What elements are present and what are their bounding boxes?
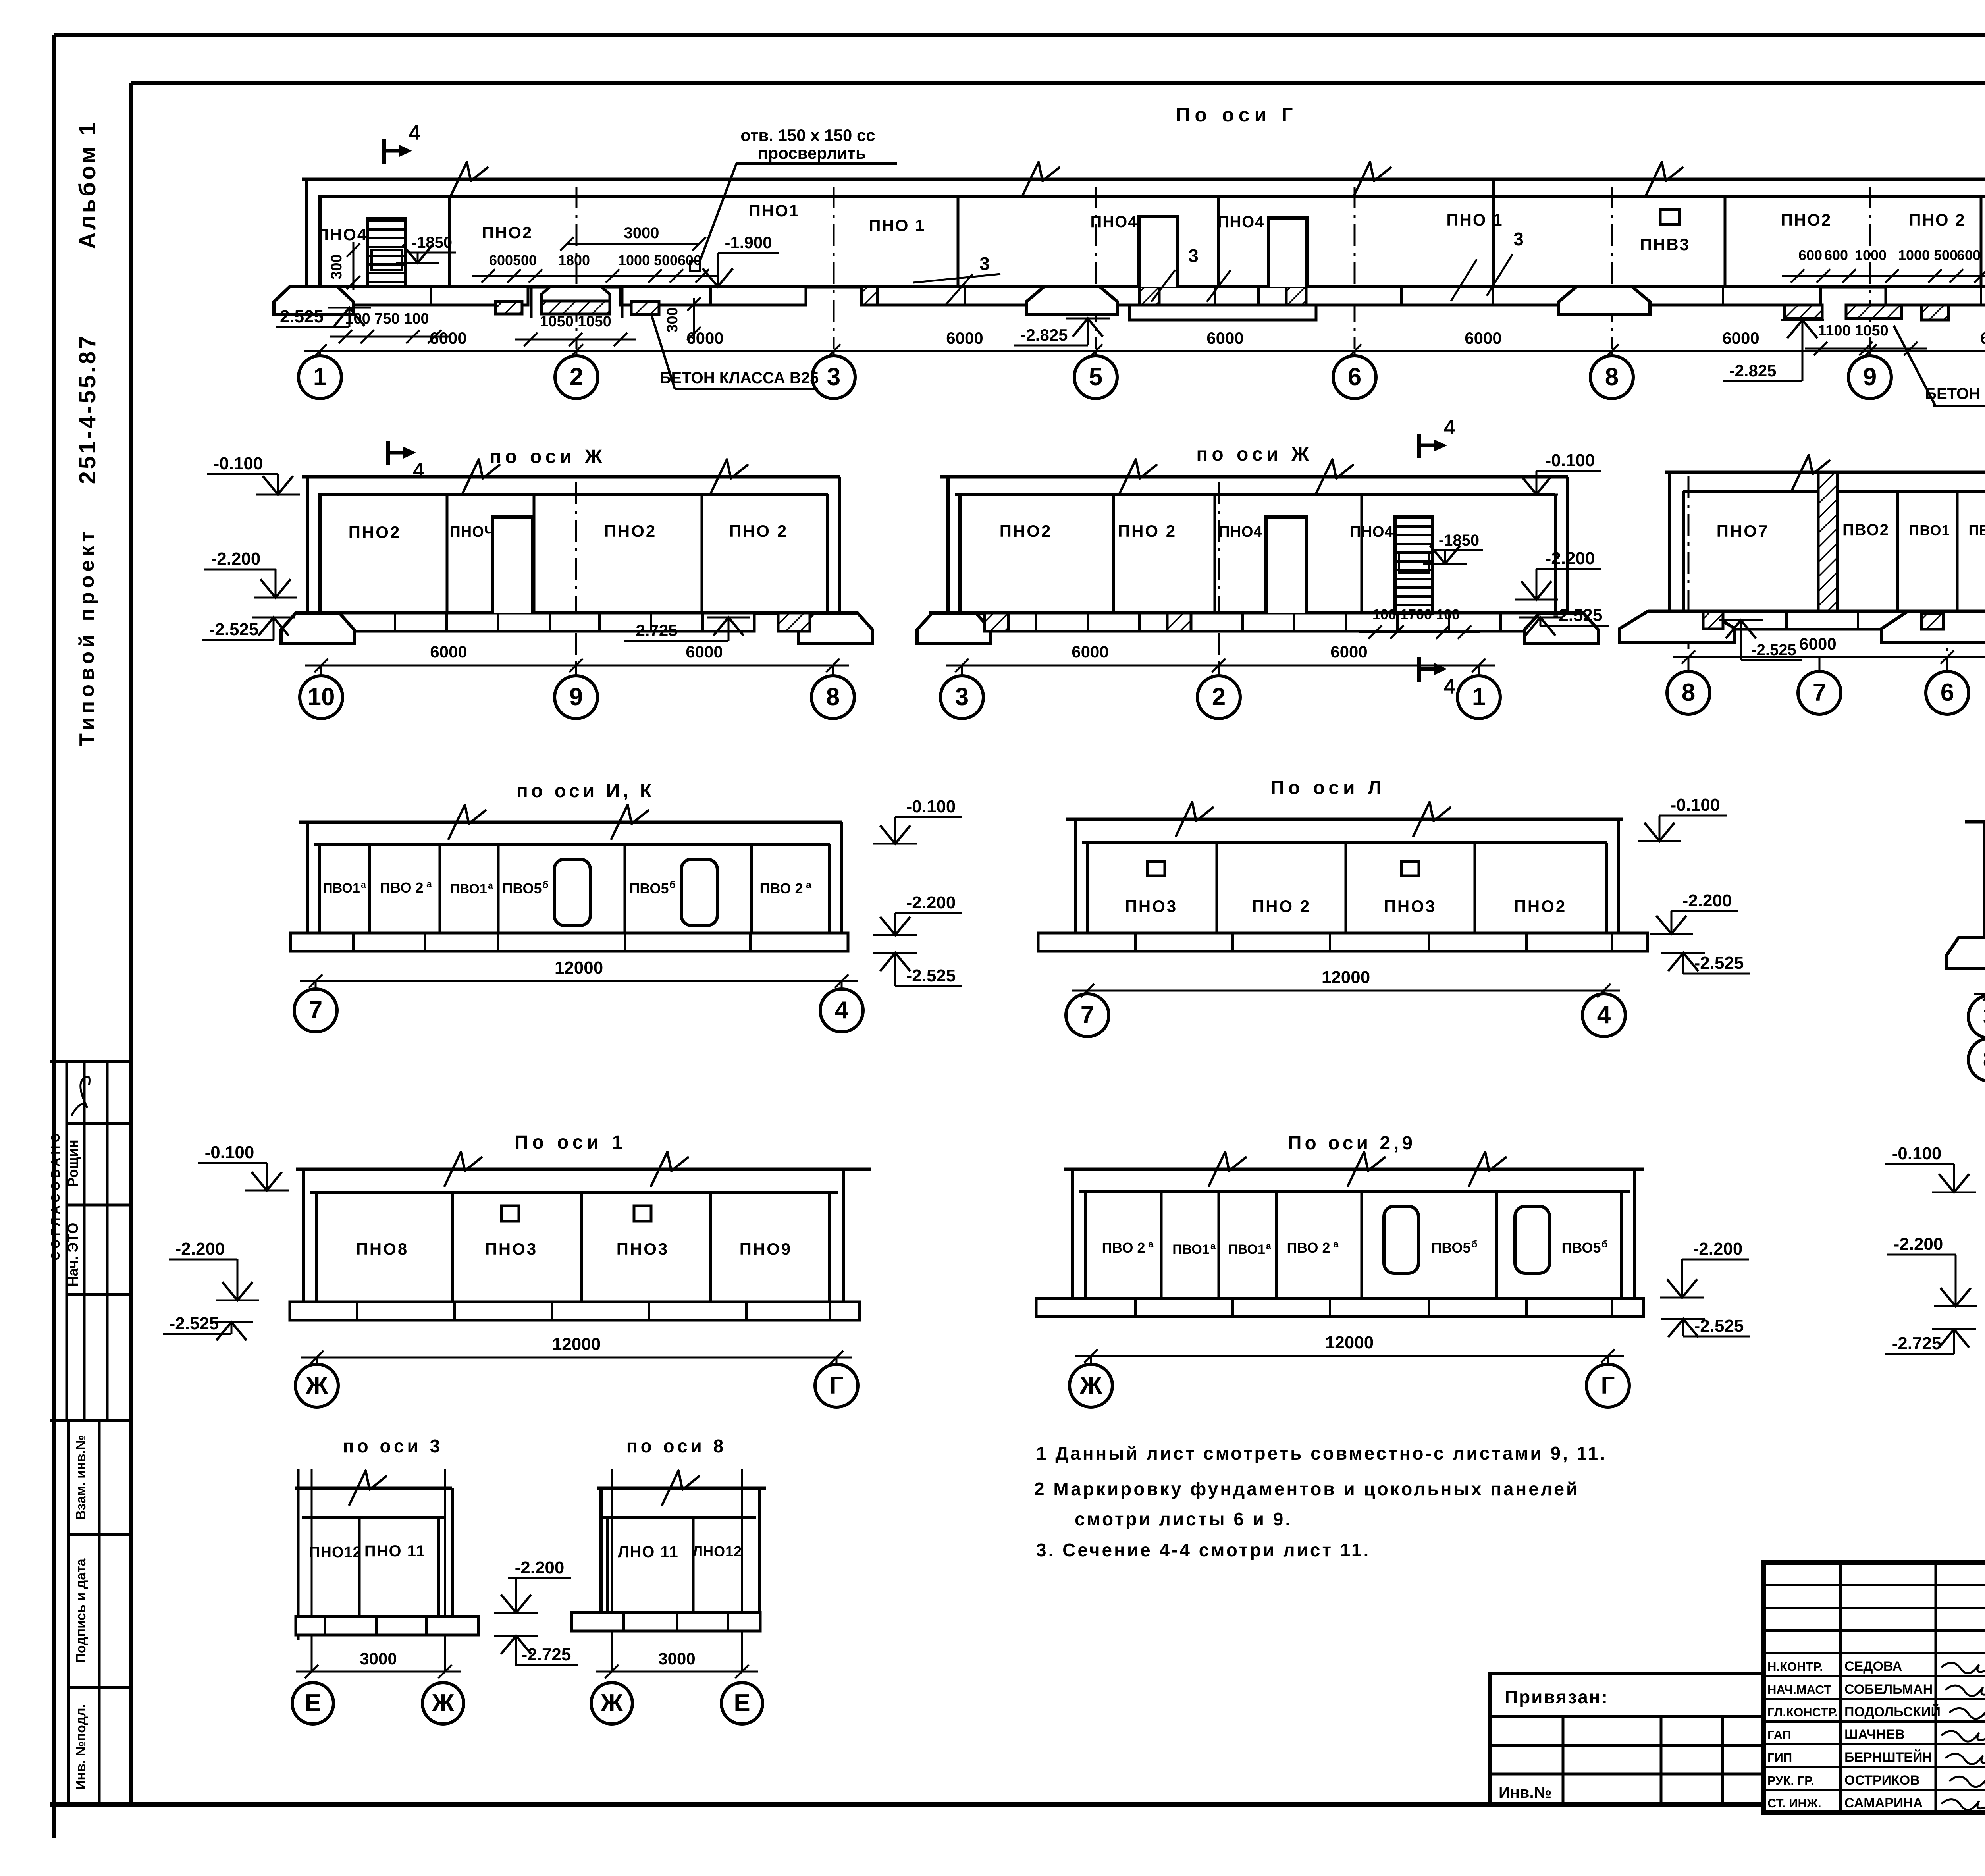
o29 main dim bbox=[1075, 1355, 1624, 1357]
svg-text:а: а bbox=[426, 879, 432, 890]
zh2 chimney hatched bbox=[1395, 517, 1433, 613]
svg-text:ПНО1: ПНО1 bbox=[749, 201, 800, 220]
title block frame bbox=[1763, 1562, 1985, 1812]
svg-text:3: 3 bbox=[827, 363, 840, 391]
svg-text:2 Маркировку фундаментов и: 2 Маркировку фундаментов и цокольных пан… bbox=[1034, 1479, 1579, 1499]
s3 left edge line bbox=[297, 1469, 300, 1640]
e left wall bbox=[1668, 472, 1671, 611]
svg-text:8: 8 bbox=[1605, 363, 1619, 391]
svg-text:по оси Ж: по оси Ж bbox=[1196, 444, 1312, 465]
svg-text:ПВО1: ПВО1 bbox=[1172, 1242, 1210, 1257]
border inner bottom line bbox=[50, 1802, 1763, 1807]
svg-text:-2.200: -2.200 bbox=[515, 1558, 565, 1577]
svg-text:ПНО12: ПНО12 bbox=[309, 1544, 362, 1561]
svg-text:7: 7 bbox=[309, 997, 322, 1024]
svg-text:600: 600 bbox=[1824, 247, 1848, 263]
svg-text:-2.825: -2.825 bbox=[1729, 361, 1776, 380]
o1 main dim bbox=[301, 1357, 852, 1359]
svg-text:а: а bbox=[1333, 1239, 1339, 1250]
zh1 door bbox=[492, 517, 532, 613]
svg-text:1800: 1800 bbox=[558, 252, 590, 268]
svg-text:8: 8 bbox=[1682, 679, 1695, 706]
l left wall bbox=[1074, 819, 1077, 933]
svg-text:по оси И, К: по оси И, К bbox=[516, 781, 655, 802]
o29 grid circles bbox=[1090, 1356, 1092, 1364]
s3 dim 3000 bbox=[296, 1671, 461, 1673]
svg-text:3: 3 bbox=[1983, 1003, 1985, 1030]
zh1 foundation bbox=[296, 611, 850, 615]
svg-text:4: 4 bbox=[835, 997, 849, 1024]
zh2 right wall bbox=[1554, 494, 1557, 613]
o1 ground line bbox=[296, 1168, 871, 1171]
svg-text:ПНО4: ПНО4 bbox=[1091, 213, 1138, 231]
svg-text:Альбом 1: Альбом 1 bbox=[75, 120, 100, 249]
svg-text:ПВО5: ПВО5 bbox=[1562, 1240, 1601, 1256]
svg-text:Типовой проект: Типовой проект bbox=[75, 528, 98, 746]
zh1 grid circles bbox=[320, 665, 322, 676]
svg-text:300: 300 bbox=[664, 307, 681, 332]
svg-text:ЛНО12: ЛНО12 bbox=[693, 1543, 742, 1560]
svg-text:300: 300 bbox=[328, 254, 345, 279]
svg-text:ЛНО 11: ЛНО 11 bbox=[618, 1543, 678, 1561]
svg-text:1: 1 bbox=[1472, 683, 1486, 711]
o1 grid circles bbox=[316, 1357, 318, 1364]
svg-text:ПНО4: ПНО4 bbox=[1219, 524, 1262, 540]
svg-text:4: 4 bbox=[1444, 675, 1455, 698]
svg-text:б: б bbox=[542, 879, 548, 891]
svg-text:По оси Г: По оси Г bbox=[1176, 104, 1297, 126]
border inner top line bbox=[131, 81, 1985, 85]
svg-text:6000: 6000 bbox=[686, 329, 723, 347]
svg-text:5: 5 bbox=[1089, 363, 1102, 391]
svg-text:6000: 6000 bbox=[1206, 329, 1243, 347]
po osi G dim 3000 bbox=[567, 243, 699, 245]
svg-text:Нач. ЭТО: Нач. ЭТО bbox=[65, 1223, 81, 1287]
o1 slab line bbox=[310, 1191, 838, 1194]
svg-text:-0.100: -0.100 bbox=[906, 797, 956, 816]
svg-text:СОБЕЛЬМАН: СОБЕЛЬМАН bbox=[1844, 1682, 1933, 1697]
svg-text:2: 2 bbox=[1212, 683, 1226, 711]
s8 panel divider bbox=[692, 1517, 695, 1612]
svg-text:РУК. ГР.: РУК. ГР. bbox=[1767, 1774, 1814, 1787]
svg-text:-2.200: -2.200 bbox=[1894, 1234, 1943, 1254]
svg-text:6000: 6000 bbox=[430, 329, 466, 347]
svg-text:ПВО1: ПВО1 bbox=[323, 881, 360, 896]
svg-text:ПНО4: ПНО4 bbox=[317, 225, 368, 244]
svg-text:8: 8 bbox=[826, 683, 840, 711]
svg-text:БЕТОН КЛАССА В7.5: БЕТОН КЛАССА В7.5 bbox=[1925, 385, 1985, 403]
po osi G slab line bbox=[318, 195, 1985, 198]
svg-text:-2.525: -2.525 bbox=[1694, 953, 1744, 973]
svg-text:СОГЛАСОВАНО: СОГЛАСОВАНО bbox=[48, 1130, 62, 1260]
o29 foundation plate bbox=[1036, 1298, 1644, 1317]
svg-text:-0.100: -0.100 bbox=[214, 454, 263, 473]
svg-text:4: 4 bbox=[1444, 416, 1455, 439]
s8 slab line bbox=[603, 1516, 756, 1519]
privyazan table frame bbox=[1490, 1674, 1763, 1805]
svg-text:-2.200: -2.200 bbox=[211, 549, 261, 569]
zh1 left wall bbox=[306, 477, 309, 613]
svg-text:а: а bbox=[1266, 1241, 1271, 1251]
svg-text:Ж: Ж bbox=[1079, 1372, 1102, 1399]
po osi G level box -1850 in column bbox=[372, 250, 402, 270]
svg-text:12000: 12000 bbox=[555, 958, 603, 978]
svg-text:ПВО1: ПВО1 bbox=[1909, 522, 1950, 538]
o1 right wall bbox=[828, 1192, 831, 1302]
svg-text:6: 6 bbox=[1348, 363, 1361, 391]
ik slots bbox=[554, 859, 590, 925]
zh1 slab line bbox=[318, 493, 828, 496]
svg-text:3: 3 bbox=[955, 683, 969, 711]
s8 axis Zh vline bbox=[611, 1469, 613, 1672]
svg-text:ПВО 2: ПВО 2 bbox=[1287, 1240, 1330, 1256]
svg-text:1000: 1000 bbox=[618, 252, 650, 268]
svg-text:БЕРНШТЕЙН: БЕРНШТЕЙН bbox=[1844, 1749, 1932, 1765]
svg-text:1: 1 bbox=[313, 363, 327, 391]
l foundation plate bbox=[1038, 933, 1648, 951]
svg-text:600: 600 bbox=[1957, 247, 1981, 263]
svg-text:ПНО3: ПНО3 bbox=[1384, 897, 1437, 916]
svg-text:8: 8 bbox=[1983, 1046, 1985, 1073]
svg-text:ПНО7: ПНО7 bbox=[1717, 522, 1769, 540]
svg-text:Е: Е bbox=[304, 1689, 321, 1717]
l right wall bbox=[1605, 843, 1608, 933]
zh2 left wall bbox=[946, 477, 950, 613]
svg-text:6000: 6000 bbox=[1465, 329, 1501, 347]
svg-text:ПНО2: ПНО2 bbox=[349, 523, 401, 542]
svg-text:-2.200: -2.200 bbox=[1546, 549, 1595, 568]
svg-text:6: 6 bbox=[1941, 679, 1954, 706]
svg-text:ПВО 2: ПВО 2 bbox=[759, 880, 803, 897]
svg-text:ПВО1: ПВО1 bbox=[1228, 1242, 1265, 1257]
svg-text:Взам. инв.№: Взам. инв.№ bbox=[73, 1435, 89, 1520]
svg-text:6000: 6000 bbox=[430, 642, 467, 661]
sidebar signature bbox=[71, 1077, 90, 1116]
svg-text:Привязан:: Привязан: bbox=[1505, 1687, 1609, 1707]
svg-text:ПНО 2: ПНО 2 bbox=[1909, 210, 1966, 229]
l slab line bbox=[1082, 841, 1607, 844]
svg-text:Ж: Ж bbox=[600, 1689, 623, 1717]
svg-text:6000: 6000 bbox=[1330, 642, 1367, 661]
l panel dividers bbox=[1216, 843, 1218, 933]
svg-text:Ж: Ж bbox=[432, 1689, 455, 1717]
o1 left wall bbox=[302, 1169, 305, 1302]
zh2 slab line bbox=[955, 493, 1555, 496]
svg-text:СТ. ИНЖ.: СТ. ИНЖ. bbox=[1767, 1796, 1821, 1810]
svg-text:6000: 6000 bbox=[1072, 642, 1108, 661]
svg-text:а: а bbox=[1210, 1241, 1216, 1251]
svg-text:ПНО4: ПНО4 bbox=[1350, 524, 1393, 540]
svg-text:смотри листы 6 и 9.: смотри листы 6 и 9. bbox=[1075, 1509, 1292, 1529]
svg-text:ПНО 2: ПНО 2 bbox=[1252, 897, 1311, 916]
svg-text:ПВО 2: ПВО 2 bbox=[1102, 1240, 1145, 1256]
svg-text:ПВО1: ПВО1 bbox=[450, 881, 487, 897]
o29 slab line bbox=[1079, 1190, 1630, 1193]
svg-text:7: 7 bbox=[1813, 679, 1826, 706]
svg-text:ПНО9: ПНО9 bbox=[740, 1240, 792, 1258]
svg-text:-1850: -1850 bbox=[412, 234, 452, 251]
svg-text:7: 7 bbox=[1081, 1001, 1094, 1029]
po osi G section mark 4 bottom bbox=[388, 441, 424, 482]
s3 axis Zh vline bbox=[444, 1469, 446, 1672]
o29 panel dividers bbox=[1160, 1191, 1163, 1298]
svg-text:1050 1050: 1050 1050 bbox=[540, 313, 611, 330]
svg-text:отв. 150 х 150 сс: отв. 150 х 150 сс bbox=[740, 126, 875, 145]
svg-text:1 Данный лист смотреть со: 1 Данный лист смотреть совместно-с листа… bbox=[1036, 1443, 1607, 1463]
svg-text:ПНО3: ПНО3 bbox=[617, 1240, 669, 1258]
svg-text:-1.900: -1.900 bbox=[725, 233, 772, 252]
o1 foundation plate bbox=[290, 1302, 860, 1320]
svg-text:500: 500 bbox=[654, 252, 678, 268]
po osi G foundation pits hatched bbox=[530, 287, 533, 318]
svg-text:ПНО 1: ПНО 1 bbox=[1446, 210, 1503, 229]
svg-text:6000: 6000 bbox=[1799, 634, 1836, 653]
zh1 axis line 9 bbox=[575, 482, 577, 675]
svg-text:-0.100: -0.100 bbox=[1546, 451, 1595, 470]
svg-text:-2.200: -2.200 bbox=[906, 893, 956, 912]
e main dim bbox=[1673, 656, 1985, 658]
d left wall bbox=[1983, 822, 1985, 938]
s8 ground line bbox=[597, 1487, 766, 1490]
svg-text:-2.525: -2.525 bbox=[1751, 641, 1796, 659]
svg-text:6000: 6000 bbox=[1722, 329, 1759, 347]
svg-text:3: 3 bbox=[1513, 229, 1524, 249]
svg-text:ПНО 2: ПНО 2 bbox=[1118, 522, 1177, 540]
po osi G panel dividers bbox=[448, 196, 451, 287]
svg-text:ПВО1: ПВО1 bbox=[1969, 522, 1985, 538]
svg-text:2.525: 2.525 bbox=[280, 307, 324, 326]
svg-text:ПНО 1: ПНО 1 bbox=[869, 216, 925, 235]
svg-text:2: 2 bbox=[570, 363, 583, 391]
zh2 axis line 2 bbox=[1218, 482, 1220, 675]
svg-text:1000: 1000 bbox=[1898, 247, 1930, 263]
svg-text:ПНО 2: ПНО 2 bbox=[729, 522, 788, 540]
ik slab line bbox=[314, 843, 830, 846]
svg-text:ПНО2: ПНО2 bbox=[604, 522, 657, 540]
svg-text:-0.100: -0.100 bbox=[1892, 1144, 1942, 1163]
svg-text:-0.100: -0.100 bbox=[205, 1143, 254, 1162]
svg-text:9: 9 bbox=[1863, 363, 1877, 391]
svg-text:3: 3 bbox=[1188, 245, 1199, 266]
ik right wall bbox=[828, 844, 831, 933]
svg-text:Н.КОНТР.: Н.КОНТР. bbox=[1767, 1660, 1823, 1674]
ik main dim bbox=[300, 980, 858, 982]
po osi G left wall bbox=[305, 179, 308, 287]
sidebar table soglasovano bbox=[50, 1060, 131, 1063]
e slab line bbox=[1683, 490, 1985, 493]
zh1 right wall bbox=[826, 494, 829, 613]
svg-text:ГАП: ГАП bbox=[1767, 1728, 1791, 1742]
title block left grid bbox=[1763, 1584, 1985, 1586]
svg-text:а: а bbox=[806, 879, 812, 891]
svg-text:а: а bbox=[1148, 1239, 1154, 1250]
svg-text:По оси Л: По оси Л bbox=[1270, 777, 1385, 798]
ik ground line bbox=[299, 821, 842, 824]
svg-text:251-4-55.87: 251-4-55.87 bbox=[75, 334, 100, 484]
o1 panel dividers bbox=[451, 1192, 454, 1302]
svg-text:ПВО2: ПВО2 bbox=[1842, 521, 1889, 539]
svg-text:ПНОЧ: ПНОЧ bbox=[449, 524, 495, 540]
e panel dividers bbox=[1896, 491, 1899, 611]
svg-text:ПВО5: ПВО5 bbox=[1432, 1240, 1471, 1256]
d foundation bbox=[1947, 938, 1985, 969]
svg-text:-2.725: -2.725 bbox=[630, 621, 677, 640]
po osi G axis lines bbox=[576, 187, 578, 349]
svg-text:просверлить: просверлить bbox=[758, 144, 866, 162]
svg-text:-2.725: -2.725 bbox=[1892, 1334, 1942, 1353]
zh2 section mark 4 top bbox=[1419, 416, 1455, 458]
svg-text:1000: 1000 bbox=[1855, 247, 1887, 263]
svg-text:500: 500 bbox=[1934, 247, 1958, 263]
s8 grid circles bbox=[591, 1683, 632, 1724]
svg-text:3000: 3000 bbox=[360, 1649, 397, 1668]
svg-text:600: 600 bbox=[1798, 247, 1822, 263]
svg-text:-0.100: -0.100 bbox=[1671, 795, 1720, 815]
svg-text:12000: 12000 bbox=[1325, 1333, 1374, 1352]
svg-text:ПВО5: ПВО5 bbox=[503, 880, 542, 897]
svg-text:3. Сечение 4-4 смотри лист 11: 3. Сечение 4-4 смотри лист 11. bbox=[1036, 1540, 1370, 1560]
svg-text:600: 600 bbox=[678, 252, 701, 268]
po osi G section mark 4 top bbox=[384, 121, 420, 164]
o29 right wall bbox=[1620, 1191, 1623, 1298]
zh2 ground line bbox=[940, 475, 1568, 479]
po osi G door openings bbox=[1139, 217, 1178, 287]
svg-text:Г: Г bbox=[829, 1372, 843, 1399]
s8 right break bbox=[758, 1488, 761, 1612]
svg-text:Инв.№: Инв.№ bbox=[1499, 1784, 1551, 1801]
l main dim bbox=[1072, 990, 1620, 992]
po osi G ground line bbox=[302, 178, 1985, 181]
svg-text:ПНО4: ПНО4 bbox=[1218, 213, 1265, 231]
svg-text:ПОДОЛЬСКИЙ: ПОДОЛЬСКИЙ bbox=[1844, 1704, 1941, 1720]
border outer left line bbox=[52, 35, 56, 1838]
svg-text:Подпись и дата: Подпись и дата bbox=[73, 1558, 89, 1663]
svg-text:САМАРИНА: САМАРИНА bbox=[1844, 1795, 1923, 1810]
svg-text:4: 4 bbox=[409, 121, 420, 145]
svg-text:3000: 3000 bbox=[624, 224, 659, 242]
svg-text:б: б bbox=[669, 879, 675, 891]
svg-text:3000: 3000 bbox=[658, 1649, 695, 1668]
o29 ground line bbox=[1064, 1168, 1644, 1171]
svg-text:100 1700 100: 100 1700 100 bbox=[1372, 606, 1460, 623]
s3 grid circles bbox=[292, 1683, 333, 1724]
svg-text:по оси Ж: по оси Ж bbox=[490, 446, 606, 467]
l ground line bbox=[1066, 818, 1623, 821]
svg-text:ПВО5: ПВО5 bbox=[630, 880, 669, 897]
svg-text:а: а bbox=[361, 879, 366, 890]
s8 axis E vline bbox=[741, 1469, 743, 1672]
s8 foundation plate bbox=[572, 1612, 760, 1631]
s8 dim 3000 bbox=[596, 1671, 758, 1673]
ik grid circles bbox=[315, 981, 317, 989]
svg-text:ПНО 11: ПНО 11 bbox=[364, 1542, 426, 1560]
e ground line bbox=[1665, 471, 1985, 474]
svg-text:6000: 6000 bbox=[1980, 329, 1985, 347]
svg-text:6000: 6000 bbox=[946, 329, 983, 347]
svg-text:9: 9 bbox=[569, 683, 583, 711]
ik left wall bbox=[306, 822, 309, 933]
s3 right wall bbox=[437, 1517, 440, 1616]
svg-text:По оси 1: По оси 1 bbox=[515, 1132, 626, 1153]
svg-text:10: 10 bbox=[308, 683, 335, 711]
svg-text:б: б bbox=[1471, 1239, 1477, 1250]
svg-text:ПНО3: ПНО3 bbox=[1125, 897, 1178, 916]
svg-text:600: 600 bbox=[489, 252, 513, 268]
svg-text:ПВО 2: ПВО 2 bbox=[380, 879, 423, 896]
po osi G chimney column hatched bbox=[368, 218, 405, 287]
ik panel dividers bbox=[368, 844, 371, 933]
po osi G small squares bbox=[1660, 210, 1679, 224]
zh2 section mark 4 bottom bbox=[1419, 657, 1455, 698]
svg-text:-2.525: -2.525 bbox=[1553, 605, 1603, 625]
svg-text:-2.525: -2.525 bbox=[170, 1314, 219, 1333]
zh2 panel dividers bbox=[1112, 494, 1115, 613]
s3 axis E vline bbox=[311, 1469, 313, 1672]
border inner left line bbox=[129, 83, 133, 1805]
svg-text:Инв. №подл.: Инв. №подл. bbox=[73, 1704, 89, 1790]
svg-text:Ж: Ж bbox=[305, 1372, 328, 1399]
svg-text:НАЧ.МАСТ: НАЧ.МАСТ bbox=[1767, 1683, 1831, 1697]
svg-text:а: а bbox=[488, 880, 493, 891]
svg-text:-2.525: -2.525 bbox=[906, 966, 956, 985]
d main dim bbox=[1974, 993, 1985, 995]
svg-text:-2.725: -2.725 bbox=[522, 1645, 571, 1664]
zh1 ground line bbox=[302, 475, 840, 479]
s3 ground line bbox=[295, 1487, 452, 1490]
svg-text:Рощин: Рощин bbox=[65, 1139, 81, 1187]
svg-text:6000: 6000 bbox=[686, 642, 723, 661]
border outer top line bbox=[54, 33, 1985, 37]
svg-text:-2.200: -2.200 bbox=[1693, 1239, 1743, 1259]
svg-text:12000: 12000 bbox=[552, 1334, 601, 1354]
zh2 door bbox=[1266, 517, 1306, 613]
e grid circles bbox=[1688, 657, 1690, 671]
ik foundation plate bbox=[291, 933, 848, 951]
s3 panel divider bbox=[358, 1517, 361, 1616]
svg-text:ПНВ3: ПНВ3 bbox=[1640, 235, 1690, 254]
svg-text:ГЛ.КОНСТР.: ГЛ.КОНСТР. bbox=[1767, 1705, 1838, 1719]
svg-text:1100 1050: 1100 1050 bbox=[1818, 322, 1889, 339]
l small squares bbox=[1147, 862, 1165, 876]
svg-text:по оси 3: по оси 3 bbox=[343, 1436, 443, 1456]
svg-text:ПНО2: ПНО2 bbox=[1781, 210, 1832, 229]
e hatched wall strip bbox=[1818, 472, 1837, 611]
svg-text:по оси 8: по оси 8 bbox=[626, 1436, 727, 1456]
zh1 panel dividers bbox=[446, 494, 449, 613]
svg-text:ШАЧНЕВ: ШАЧНЕВ bbox=[1844, 1727, 1905, 1742]
zh2 foundation bbox=[929, 611, 1576, 615]
svg-text:СЕДОВА: СЕДОВА bbox=[1844, 1659, 1902, 1674]
svg-text:-2.200: -2.200 bbox=[175, 1239, 225, 1259]
o29 slots bbox=[1384, 1206, 1418, 1273]
svg-text:ПНО2: ПНО2 bbox=[482, 223, 533, 242]
s8 left wall bbox=[599, 1488, 603, 1612]
po osi G footings bbox=[274, 287, 353, 314]
svg-text:По оси 2,9: По оси 2,9 bbox=[1288, 1133, 1416, 1154]
svg-text:-2.200: -2.200 bbox=[1682, 891, 1732, 910]
o1 small squares bbox=[501, 1206, 519, 1221]
l grid circles bbox=[1087, 991, 1089, 994]
svg-text:ОСТРИКОВ: ОСТРИКОВ bbox=[1844, 1773, 1920, 1788]
po osi G foundation top line bbox=[296, 285, 1985, 289]
d ground line bbox=[1965, 820, 1985, 824]
po osi G main dim line bbox=[304, 350, 1985, 352]
svg-text:-2.525: -2.525 bbox=[209, 620, 259, 639]
po osi G grid circles bbox=[319, 351, 321, 356]
s3 slab line bbox=[302, 1516, 445, 1519]
svg-text:ГИП: ГИП bbox=[1767, 1751, 1792, 1764]
zh1 main dim bbox=[305, 665, 849, 667]
